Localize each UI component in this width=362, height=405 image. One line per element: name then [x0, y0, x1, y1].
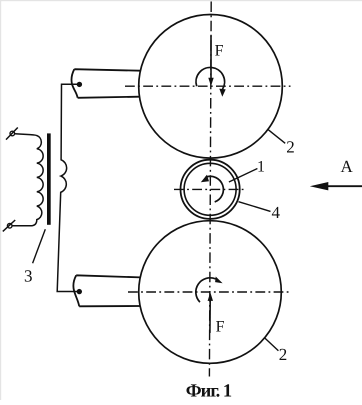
bottom roll horizontal centerline [128, 291, 290, 293]
top roll horizontal centerline [125, 85, 291, 87]
svg-text:2: 2 [286, 137, 295, 156]
force F arrow bottom [209, 300, 211, 334]
primary terminal top [10, 131, 15, 136]
leader and label 2 top [268, 129, 285, 143]
transformer core [47, 133, 51, 224]
leader and label 2 bottom [264, 337, 278, 350]
leader and label 1 [229, 169, 258, 183]
primary coil [12, 134, 43, 226]
roll 2 top circle [139, 15, 283, 159]
junction dot top [77, 82, 82, 87]
roll 2 bottom circle [139, 221, 282, 364]
primary terminal bottom [7, 224, 12, 229]
rotation arrow bottom roll [196, 278, 216, 302]
leader and label 4 [239, 202, 271, 212]
workpiece 1 inner circle [184, 163, 236, 215]
svg-text:F: F [215, 43, 224, 60]
svg-text:Фиг. 1: Фиг. 1 [186, 382, 232, 401]
rotation arrow middle roll [206, 176, 224, 202]
rotation arrow top roll [196, 67, 225, 89]
sleeve 4 outer circle [181, 160, 240, 219]
svg-text:А: А [341, 157, 354, 176]
junction dot bottom [77, 289, 82, 294]
svg-text:1: 1 [257, 158, 265, 175]
scan border left [0, 0, 1, 400]
secondary wire with secondary coil [57, 84, 79, 291]
scan border top [0, 0, 362, 1]
force F arrow top [210, 36, 212, 80]
svg-text:4: 4 [272, 203, 281, 222]
middle roll horizontal centerline [174, 188, 247, 190]
vertical centerline [209, 2, 211, 377]
bottom electrode arm [73, 275, 140, 306]
svg-text:2: 2 [279, 345, 288, 364]
svg-text:3: 3 [24, 267, 33, 286]
top electrode arm [71, 69, 140, 98]
svg-text:F: F [216, 318, 225, 335]
leader and label 3 [33, 229, 46, 263]
direction A arrow [325, 185, 362, 187]
